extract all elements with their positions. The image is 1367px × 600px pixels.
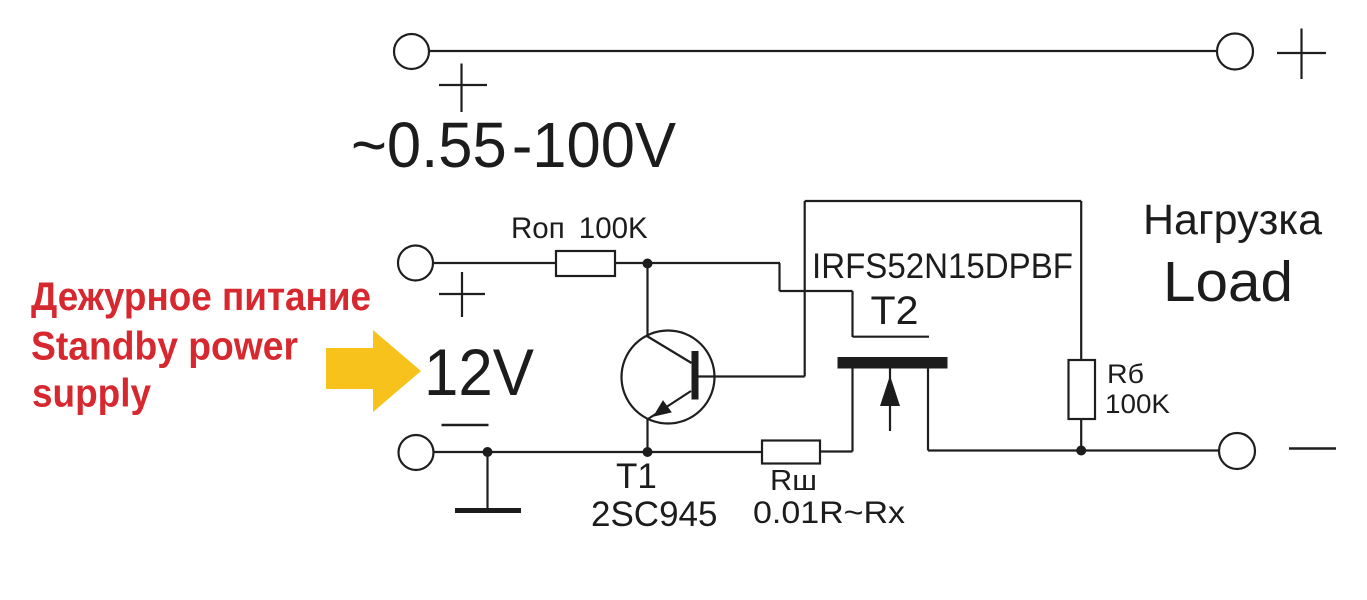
wire top box left vertical to T1 base	[804, 201, 806, 377]
node C junction dot T1 emitter	[643, 447, 653, 457]
transistor T1 collector diagonal	[646, 336, 692, 364]
wire T1 emitter down	[646, 419, 648, 452]
minus sign 12V	[442, 424, 489, 427]
svg-text:T2: T2	[871, 289, 919, 333]
svg-text:12V: 12V	[424, 335, 534, 409]
minus sign output	[1289, 447, 1336, 450]
node B junction dot ground tap	[483, 447, 493, 457]
wire bottom rail left	[434, 451, 763, 453]
resistor Rb	[1069, 360, 1096, 419]
wire Rsh to T2 source	[820, 450, 853, 452]
transistor T2 body arrow line	[889, 369, 891, 432]
resistor Rsh	[762, 441, 820, 464]
transistor T2 channel bar	[838, 357, 948, 369]
terminal circle output minus	[1219, 433, 1255, 469]
transistor T1 base bar	[692, 351, 699, 400]
plus sign AC input	[439, 64, 487, 113]
svg-text:Load: Load	[1163, 250, 1293, 314]
node D junction dot Rb bottom	[1076, 446, 1086, 456]
terminal circle AC output right	[1217, 34, 1253, 70]
wire ground drop	[486, 452, 488, 508]
wire gate step horizontal	[780, 290, 853, 292]
svg-text:Rш: Rш	[770, 465, 817, 497]
transistor T1 emitter diagonal	[648, 391, 691, 419]
wire gate step vertical 1	[778, 263, 780, 291]
terminal circle 12V plus	[398, 246, 433, 281]
terminal circle AC input left	[394, 34, 429, 69]
wire Rb bottom	[1080, 419, 1082, 451]
plus sign output right	[1277, 29, 1326, 80]
wire top box right vertical to Rb	[1080, 201, 1082, 360]
resistor Rop	[556, 251, 615, 276]
svg-text:Rоп 100K: Rоп 100K	[511, 212, 648, 245]
wire T2 drain lead vertical	[927, 368, 929, 451]
wire bottom rail right	[928, 449, 1219, 451]
transistor T1 body circle	[622, 331, 715, 424]
wire T2 gate line	[853, 336, 930, 338]
svg-text:2SC945: 2SC945	[591, 495, 717, 534]
wire top rail	[430, 50, 1219, 52]
wire 12V plus to Rop	[433, 262, 556, 264]
plus sign 12V	[439, 272, 485, 317]
transistor T1 emitter arrowhead	[654, 401, 671, 416]
wire T1 base to right vertical	[699, 375, 805, 377]
svg-text:supply: supply	[32, 372, 152, 416]
svg-text:Standby power: Standby power	[31, 325, 298, 369]
svg-text:IRFS52N15DPBF: IRFS52N15DPBF	[812, 247, 1073, 286]
wire node A down to T1 collector	[646, 263, 648, 336]
svg-text:T1: T1	[616, 457, 657, 496]
svg-text:Дежурное питание: Дежурное питание	[31, 275, 371, 319]
svg-text:0.01R~Rx: 0.01R~Rx	[753, 494, 905, 530]
wire top box horizontal	[805, 200, 1081, 202]
wire Rop to node A	[615, 262, 780, 264]
wire T2 source lead vertical	[851, 368, 853, 452]
wire gate step vertical 2	[851, 291, 853, 337]
ground symbol bar	[455, 508, 521, 513]
svg-text:Нагрузка: Нагрузка	[1143, 196, 1322, 244]
transistor T2 body arrowhead	[880, 376, 900, 407]
terminal circle 12V minus	[399, 435, 434, 470]
svg-text:~0.55 -100V: ~0.55 -100V	[351, 109, 676, 181]
svg-text:Rб: Rб	[1107, 359, 1144, 389]
node A junction dot	[643, 259, 653, 269]
svg-text:100K: 100K	[1105, 389, 1170, 419]
yellow arrow standby	[326, 330, 421, 412]
